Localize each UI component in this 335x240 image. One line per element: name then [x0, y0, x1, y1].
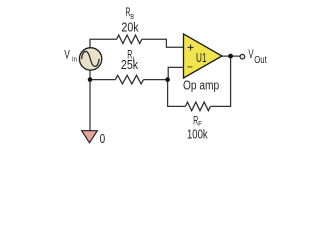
svg-text:100k: 100k: [187, 128, 208, 142]
svg-text:V: V: [64, 49, 70, 62]
wire node A to ground: [89, 80, 91, 131]
ground symbol 0: [82, 131, 98, 143]
wire node A to RI: [90, 79, 115, 81]
junction output node: [228, 54, 233, 59]
svg-text:20k: 20k: [121, 19, 138, 34]
wire source bottom to node A: [89, 70, 91, 80]
svg-text:In: In: [72, 56, 77, 64]
wire RB to op-amp plus input: [142, 39, 184, 47]
output terminal VOut: [240, 54, 245, 59]
junction node A: [88, 77, 93, 82]
wire top rail from source to RB: [90, 39, 117, 47]
resistor RB: [117, 35, 142, 44]
svg-text:V: V: [248, 48, 253, 61]
svg-text:0: 0: [100, 132, 106, 147]
svg-text:Out: Out: [254, 54, 267, 65]
svg-text:25k: 25k: [121, 57, 138, 72]
svg-text:Op amp: Op amp: [183, 79, 219, 92]
junction node B: [165, 77, 170, 82]
wire node B to op-amp minus input: [168, 67, 183, 79]
wire node B down to feedback rail: [168, 80, 186, 107]
wire RI to node B: [144, 79, 168, 81]
wire RF up to output node: [210, 56, 230, 106]
wire op-amp output to terminal: [222, 55, 240, 57]
resistor RF: [185, 102, 210, 111]
source VIn: [79, 48, 101, 70]
svg-text:U1: U1: [196, 51, 207, 65]
op-amp U1: [184, 34, 223, 78]
resistor RI: [115, 75, 143, 84]
